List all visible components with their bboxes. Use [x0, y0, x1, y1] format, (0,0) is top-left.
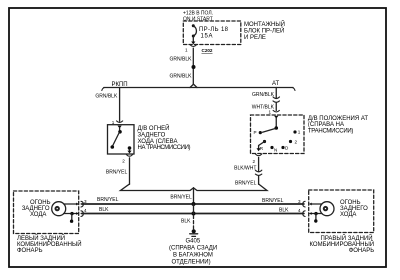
fuse/relay box (монтажный блок) [183, 21, 241, 45]
wire BLK to ground [193, 216, 195, 229]
svg-text:3: 3 [298, 199, 301, 204]
svg-text:1: 1 [298, 130, 301, 135]
wire BLK/WHT [258, 157, 260, 171]
wire GRN/BLK AT branch [275, 88, 277, 99]
reverse light switch (Д/В огней заднего хода) [108, 125, 135, 154]
inline connector on AT branch [273, 97, 280, 99]
svg-text:2: 2 [295, 139, 298, 144]
ground G405 [192, 229, 196, 233]
svg-text:1: 1 [269, 109, 272, 114]
bottom bus wire BLK [82, 213, 304, 215]
svg-text:ПРАВЫЙ ЗАДНИЙ: ПРАВЫЙ ЗАДНИЙ [321, 234, 373, 242]
svg-text:15А: 15А [201, 33, 213, 39]
splice dot [192, 65, 196, 69]
svg-text:ФОНАРЬ: ФОНАРЬ [349, 248, 375, 254]
svg-text:GRN/BLK: GRN/BLK [170, 74, 193, 80]
junction node on bottom bus [192, 212, 196, 216]
left lamp caption [17, 234, 82, 254]
wire GRN/BLK left branch [119, 88, 121, 122]
svg-text:BLK: BLK [279, 208, 289, 214]
wire BRN/YEL drop to bus [193, 188, 195, 204]
svg-text:4: 4 [84, 208, 87, 213]
svg-text:C202: C202 [202, 48, 213, 53]
svg-text:АТ: АТ [272, 81, 280, 87]
svg-text:Д/В ПОЛОЖЕНИЯ АТ: Д/В ПОЛОЖЕНИЯ АТ [308, 116, 369, 122]
svg-text:2: 2 [122, 159, 125, 164]
right lamp caption [310, 234, 375, 254]
split tent node [190, 84, 197, 87]
svg-text:ХОДА: ХОДА [30, 212, 46, 218]
svg-text:БЛОК ПР-ЛЕЙ: БЛОК ПР-ЛЕЙ [244, 27, 284, 35]
svg-text:ЛЕВЫЙ ЗАДНИЙ: ЛЕВЫЙ ЗАДНИЙ [17, 234, 65, 242]
svg-text:НА ТРАНСМИССИИ): НА ТРАНСМИССИИ) [138, 145, 191, 151]
svg-text:ПР-ЛЬ 18: ПР-ЛЬ 18 [199, 27, 229, 33]
svg-text:P: P [254, 130, 257, 135]
svg-text:BRN/YEL: BRN/YEL [97, 197, 119, 203]
svg-text:1: 1 [185, 48, 188, 53]
svg-text:4: 4 [298, 208, 301, 213]
inline connector on AT output [255, 170, 262, 172]
right lamp pin 3 connector [309, 203, 312, 206]
svg-text:GRN/BLK: GRN/BLK [252, 92, 275, 98]
wire GRN/BLK from fuse down [192, 48, 194, 84]
option split line (РКПП / АТ) [104, 87, 293, 89]
svg-text:КОМБИНИРОВАННЫЙ: КОМБИНИРОВАННЫЙ [310, 240, 375, 248]
svg-text:BLK: BLK [99, 207, 109, 213]
fuse ПР-ЛЬ 18 15A [192, 24, 195, 27]
wire BRN/YEL from reverse-light switch [129, 158, 131, 184]
pin 1 connector of reverse-light switch [112, 120, 115, 125]
right lamp leads [312, 203, 322, 205]
R contact to pin 2 [259, 142, 265, 149]
svg-text:BRN/YEL: BRN/YEL [170, 195, 192, 201]
AT position switch (Д/В положения АТ) [251, 115, 305, 154]
right lamp bulb [320, 202, 334, 216]
merge line joining both branches [121, 184, 268, 191]
svg-text:ТРАНСМИССИИ): ТРАНСМИССИИ) [308, 128, 354, 134]
wire BRN/YEL from AT switch [258, 176, 260, 185]
right lamp internal splice [314, 212, 317, 215]
svg-text:ON И START: ON И START [183, 17, 213, 23]
svg-text:В БАГАЖНОМ: В БАГАЖНОМ [173, 253, 213, 259]
svg-text:ХОДА (СЛЕВА: ХОДА (СЛЕВА [138, 139, 178, 145]
pin 2 connector of reverse-light switch [129, 149, 131, 152]
svg-text:(СПРАВА НА: (СПРАВА НА [308, 122, 344, 128]
svg-text:BLK/WHT: BLK/WHT [234, 165, 256, 171]
svg-text:BLK: BLK [181, 219, 191, 225]
svg-text:И РЕЛЕ: И РЕЛЕ [244, 35, 266, 41]
svg-text:МОНТАЖНЫЙ: МОНТАЖНЫЙ [244, 20, 285, 28]
left lamp pin 4 connector [76, 212, 79, 215]
svg-text:+12В В ПОЛ.: +12В В ПОЛ. [183, 10, 213, 16]
top bus wire BRN/YEL [82, 203, 304, 205]
left lamp leads [64, 203, 76, 205]
svg-text:WHT/BLK: WHT/BLK [252, 105, 275, 111]
svg-text:GRN/BLK: GRN/BLK [170, 57, 193, 63]
left rear combination lamp box [14, 191, 79, 234]
pin 1 connector of AT position switch [269, 109, 272, 114]
svg-text:ФОНАРЬ: ФОНАРЬ [17, 248, 43, 254]
wire WHT/BLK [275, 103, 277, 111]
left lamp bulb [52, 202, 66, 216]
svg-text:ХОДА: ХОДА [340, 212, 356, 218]
svg-text:(СПРАВА СЗАДИ: (СПРАВА СЗАДИ [169, 246, 217, 252]
svg-text:N: N [274, 147, 277, 152]
svg-text:ЗАДНЕГО: ЗАДНЕГО [138, 132, 166, 138]
left lamp pin 3 connector [76, 203, 79, 206]
svg-text:ОТДЕЛЕНИИ): ОТДЕЛЕНИИ) [172, 259, 211, 265]
left lamp internal splice [70, 212, 73, 215]
junction node on top bus [192, 202, 196, 206]
svg-text:КОМБИНИРОВАННЫЙ: КОМБИНИРОВАННЫЙ [17, 240, 82, 248]
svg-text:G405: G405 [186, 238, 201, 244]
svg-text:Д/В ОГНЕЙ: Д/В ОГНЕЙ [138, 124, 170, 132]
svg-text:3: 3 [84, 199, 87, 204]
svg-text:BRN/YEL: BRN/YEL [235, 181, 257, 187]
svg-text:GRN/BLK: GRN/BLK [95, 94, 118, 100]
svg-text:BRN/YEL: BRN/YEL [106, 170, 128, 176]
svg-text:BRN/YEL: BRN/YEL [262, 198, 284, 204]
pin 2 connector of AT position switch [256, 154, 262, 156]
AT switch caption [308, 116, 369, 135]
connector pin 1 below fuse box [191, 42, 195, 45]
svg-text:2: 2 [253, 159, 256, 164]
right lamp pin 4 connector [309, 212, 312, 215]
right rear combination lamp box [309, 190, 374, 233]
node +12V supply label [183, 10, 213, 22]
